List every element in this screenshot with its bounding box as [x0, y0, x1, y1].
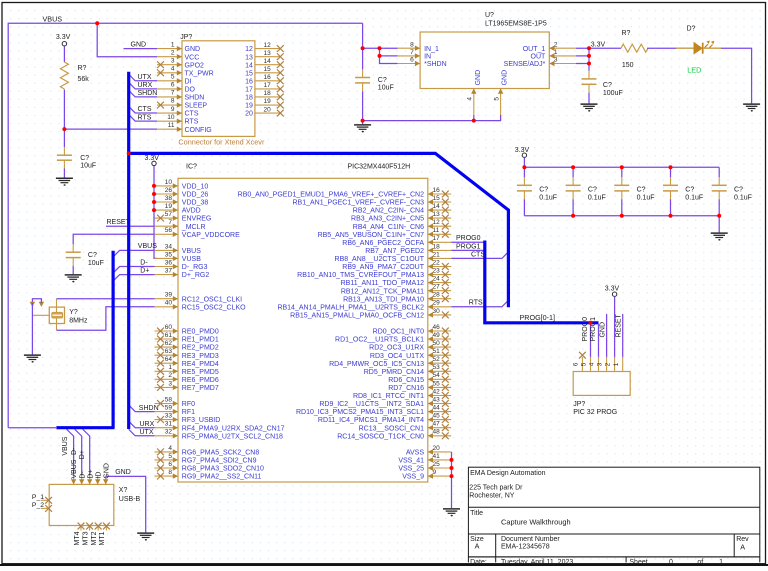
- svg-text:56k: 56k: [78, 76, 90, 83]
- svg-text:RF3_USBID: RF3_USBID: [182, 417, 221, 424]
- ground: [443, 509, 460, 517]
- pin 54 RD6_CN15: [428, 378, 451, 380]
- svg-text:PROG[0-1]: PROG[0-1]: [520, 313, 556, 322]
- svg-text:17: 17: [245, 87, 253, 94]
- svg-text:12: 12: [264, 42, 272, 49]
- bus A JP/signals vertical: [127, 72, 130, 429]
- svg-text:RD5_PMRD_CN14: RD5_PMRD_CN14: [364, 369, 424, 376]
- svg-text:11: 11: [168, 122, 175, 129]
- wire D- to IC pin36 bus entry: [113, 267, 154, 274]
- svg-text:5: 5: [168, 453, 172, 460]
- connector X? USB-B: [49, 484, 114, 525]
- pin 49 RD1_OC2__U1RTS_BCLK1: [428, 338, 451, 340]
- pin MT2: [97, 526, 99, 531]
- pin 35 VUSB: [155, 257, 179, 259]
- title block: [468, 467, 759, 562]
- pin 20 AVSS: [428, 451, 451, 453]
- svg-text:VSS_25: VSS_25: [398, 466, 424, 473]
- svg-text:RB3_AN3_C2IN+_CN5: RB3_AN3_C2IN+_CN5: [351, 216, 424, 223]
- junction at 64.4,129.1: [62, 127, 66, 131]
- svg-text:13: 13: [245, 54, 253, 61]
- junction at 379.5,48.2: [378, 46, 382, 50]
- svg-text:OUT_1: OUT_1: [523, 46, 546, 53]
- svg-text:A: A: [740, 542, 745, 551]
- pin 15 RB1_AN1_PGEC1_VREF-_CVREF-_CN3: [428, 201, 451, 203]
- svg-text:3.3V: 3.3V: [56, 34, 71, 41]
- svg-text:RB14_AN14_PMALH_PMA1__U2RTS_BC: RB14_AN14_PMALH_PMA1__U2RTS_BCLK2: [277, 304, 424, 311]
- svg-text:AVSS: AVSS: [406, 450, 424, 457]
- svg-text:RB7_AN7_PGED2: RB7_AN7_PGED2: [365, 248, 424, 255]
- svg-text:RE7_PMD7: RE7_PMD7: [182, 385, 219, 392]
- svg-text:38: 38: [165, 195, 173, 202]
- pin 2 OUT_1: [549, 47, 576, 49]
- svg-text:VSS_9: VSS_9: [402, 474, 424, 481]
- pin 43 RD9_IC2__U1CTS__INT2_SDA1: [428, 403, 451, 405]
- wire URX bus entry to JP: [129, 82, 157, 89]
- svg-text:MT3: MT3: [82, 531, 89, 545]
- svg-text:27: 27: [433, 284, 441, 291]
- svg-text:20: 20: [433, 445, 441, 452]
- pin 24 RB11_AN11_TDO_PMA12: [428, 282, 451, 284]
- pin 13 RB3_AN3_C2IN+_CN5: [428, 217, 451, 219]
- svg-text:VBUS: VBUS: [71, 459, 78, 478]
- svg-text:IN_1: IN_1: [424, 46, 439, 53]
- pin 2 VCC: [157, 56, 182, 58]
- svg-text:54: 54: [433, 372, 441, 379]
- pin 10 RTS: [157, 120, 182, 122]
- pin 40 RC15_OSC2_CLKO: [155, 306, 179, 308]
- connector JP? Xtend Xcvr: [182, 41, 255, 137]
- svg-text:2: 2: [605, 362, 612, 366]
- pin 38 VDD_38: [155, 201, 179, 203]
- pin 51 RD3_OC4_U1TX: [428, 354, 451, 356]
- svg-text:SLEEP: SLEEP: [185, 103, 208, 110]
- svg-text:P_2: P_2: [32, 502, 44, 509]
- wire crystal to RC12_OSC1_CLKI: [56, 299, 58, 307]
- pin 13: [255, 56, 281, 58]
- pin 6: [581, 357, 583, 372]
- wire crystal to ground: [31, 303, 33, 354]
- svg-text:19: 19: [165, 203, 173, 210]
- wire crystal to RC15_OSC2_CLKO: [56, 324, 58, 331]
- svg-text:16: 16: [264, 74, 272, 81]
- wire VCAP cap to ground: [72, 266, 74, 274]
- svg-text:0.1uF: 0.1uF: [588, 194, 606, 201]
- svg-text:RB6_AN6_PGEC2_OCFA: RB6_AN6_PGEC2_OCFA: [342, 240, 424, 247]
- svg-text:35: 35: [165, 251, 173, 258]
- svg-text:RD4_PMWR_OC5_IC5_CN13: RD4_PMWR_OC5_IC5_CN13: [329, 361, 424, 368]
- svg-text:RF1: RF1: [182, 409, 195, 416]
- pin 11 CONFIG: [157, 128, 182, 130]
- wire VBUS rail top: [8, 23, 362, 427]
- pin 25 VSS_25: [428, 467, 451, 469]
- wire PROG0 from RB6: [451, 241, 485, 243]
- junction at 379.5,55.9: [378, 54, 382, 58]
- pin 23 RB10_AN10_TMS_CVREFOUT_PMA13: [428, 274, 451, 276]
- svg-text:49: 49: [433, 332, 441, 339]
- svg-text:RB10_AN10_TMS_CVREFOUT_PMA13: RB10_AN10_TMS_CVREFOUT_PMA13: [297, 272, 424, 279]
- svg-text:USB-B: USB-B: [119, 496, 141, 503]
- svg-text:PIC 32 PROG: PIC 32 PROG: [573, 409, 617, 416]
- capacitor C? 10uF (VCAP): [66, 252, 81, 257]
- pin 61 RE1_PMD1: [155, 338, 179, 340]
- pin 7 SHDN: [157, 96, 182, 98]
- svg-text:51: 51: [433, 348, 441, 355]
- pin 1 GND: [157, 48, 182, 50]
- svg-text:RG7_PMA4_SDI2_CN9: RG7_PMA4_SDI2_CN9: [182, 458, 257, 465]
- pin ID: [97, 476, 99, 485]
- svg-text:RG9_PMA2__SS2_CN11: RG9_PMA2__SS2_CN11: [182, 474, 262, 481]
- svg-text:D-_RG3: D-_RG3: [182, 264, 208, 271]
- svg-text:RG8_PMA3_SDO2_CN10: RG8_PMA3_SDO2_CN10: [182, 466, 264, 473]
- svg-text:VSS_41: VSS_41: [398, 458, 424, 465]
- svg-text:VBUS: VBUS: [62, 436, 69, 455]
- svg-text:Capture Walkthrough: Capture Walkthrough: [501, 517, 571, 526]
- svg-text:36: 36: [165, 259, 173, 266]
- svg-text:RD3_OC4_U1TX: RD3_OC4_U1TX: [370, 353, 424, 360]
- wire PROG1 to JP pin4: [598, 324, 600, 357]
- capacitor C? 0.1uF #1: [523, 167, 525, 177]
- pin P_1: [41, 499, 49, 501]
- ground: [24, 355, 41, 363]
- svg-text:10: 10: [165, 179, 173, 186]
- svg-text:RB2_AN2_C2IN-_CN4: RB2_AN2_C2IN-_CN4: [353, 208, 424, 215]
- ground: [137, 533, 154, 541]
- pin 28 RB13_AN13_TDI_PMA10: [428, 298, 451, 300]
- svg-text:RE5_PMD5: RE5_PMD5: [182, 369, 219, 376]
- pin 31 RF4_PMA9_U2RX_SDA2_CN17: [155, 427, 179, 429]
- pin D-: [81, 476, 83, 485]
- svg-text:RD11_IC4_PMCS1_PMA14_INT4: RD11_IC4_PMCS1_PMA14_INT4: [318, 417, 424, 424]
- pin 39 RC12_OSC1_CLKI: [155, 298, 179, 300]
- svg-text:5: 5: [493, 97, 500, 101]
- svg-text:RE1_PMD1: RE1_PMD1: [182, 337, 219, 344]
- LED D?: [676, 41, 721, 54]
- capacitor C? 10uF (CONFIG): [57, 155, 72, 160]
- svg-text:RB0_AN0_PGED1_EMUD1_PMA6_VREF+: RB0_AN0_PGED1_EMUD1_PMA6_VREF+_CVREF+_CN…: [238, 192, 424, 199]
- svg-text:GND: GND: [185, 46, 201, 53]
- pin D+: [89, 476, 91, 485]
- svg-text:RF5_PMA8_U2TX_SCL2_CN18: RF5_PMA8_U2TX_SCL2_CN18: [182, 433, 283, 440]
- svg-text:64: 64: [165, 356, 173, 363]
- svg-text:MT2: MT2: [91, 531, 98, 545]
- svg-text:ID: ID: [95, 472, 102, 479]
- svg-text:57: 57: [165, 211, 173, 218]
- capacitor C? 100uF: [582, 79, 597, 84]
- svg-text:VCC: VCC: [185, 54, 200, 61]
- svg-text:GND: GND: [115, 469, 131, 476]
- svg-text:225 Tech park Dr: 225 Tech park Dr: [469, 484, 523, 491]
- pin 7 _MCLR: [155, 225, 179, 227]
- svg-text:100uF: 100uF: [603, 90, 623, 97]
- svg-text:RC14_SOSCO_T1CK_CN0: RC14_SOSCO_T1CK_CN0: [337, 433, 424, 440]
- wire D+ to IC pin37 bus entry: [113, 275, 154, 282]
- svg-text:15: 15: [264, 66, 272, 73]
- svg-text:5: 5: [171, 74, 175, 81]
- junction at 473.8,120.6: [472, 119, 476, 123]
- wire URX bus entry to IC: [129, 421, 155, 428]
- junction at 573.1,167.3: [571, 165, 575, 169]
- svg-text:58: 58: [165, 396, 173, 403]
- svg-text:63: 63: [165, 348, 173, 355]
- svg-text:16: 16: [245, 78, 253, 85]
- svg-text:44: 44: [433, 405, 441, 412]
- svg-text:RE3_PMD3: RE3_PMD3: [182, 353, 219, 360]
- svg-text:0.1uF: 0.1uF: [539, 194, 557, 201]
- svg-text:12: 12: [433, 219, 441, 226]
- pin 11 RB5_AN5_VBUSON_C1IN+_CN7: [428, 233, 451, 235]
- svg-text:PROG0: PROG0: [582, 317, 589, 342]
- pin 63 RE3_PMD3: [155, 354, 179, 356]
- svg-text:RE2_PMD2: RE2_PMD2: [182, 345, 219, 352]
- svg-text:MT1: MT1: [99, 531, 106, 545]
- junction at 589,63.5: [587, 62, 591, 66]
- svg-text:D-: D-: [71, 447, 78, 455]
- svg-text:1: 1: [613, 362, 620, 366]
- svg-text:C?: C?: [378, 77, 387, 84]
- pin 47 RC13__SOSCI_CN1: [428, 427, 451, 429]
- svg-text:14: 14: [433, 203, 441, 210]
- wire 100uF to ground: [588, 93, 590, 104]
- pin 18: [255, 96, 281, 98]
- pin 6 RG8_PMA3_SDO2_CN10: [155, 467, 179, 469]
- svg-text:4: 4: [467, 97, 474, 101]
- svg-text:0: 0: [669, 559, 673, 566]
- resistor R? 150: [621, 44, 648, 52]
- pin 33 RF3_USBID: [155, 419, 179, 421]
- svg-text:45: 45: [433, 413, 441, 420]
- pin 5: [590, 357, 592, 372]
- svg-text:RC15_OSC2_CLKO: RC15_OSC2_CLKO: [182, 304, 246, 311]
- svg-text:8: 8: [410, 41, 414, 48]
- svg-text:0.1uF: 0.1uF: [637, 194, 655, 201]
- svg-text:C?: C?: [734, 186, 743, 193]
- wire GND stub JP pin1: [124, 48, 158, 50]
- svg-text:9: 9: [171, 106, 175, 113]
- pin GND: [105, 476, 107, 485]
- svg-text:10uF: 10uF: [88, 260, 104, 267]
- svg-text:18: 18: [264, 90, 272, 97]
- capacitor C? 0.1uF #3: [621, 167, 623, 177]
- svg-text:C?: C?: [88, 252, 97, 259]
- ground: [743, 104, 760, 112]
- svg-text:22: 22: [433, 259, 441, 266]
- svg-text:VBUS: VBUS: [43, 14, 63, 23]
- pin 1: [622, 357, 624, 372]
- pin 34 VBUS: [155, 249, 179, 251]
- svg-text:_MCLR: _MCLR: [181, 224, 206, 231]
- svg-text:RTS: RTS: [185, 119, 199, 126]
- pin 8 IN_1: [398, 47, 421, 49]
- power symbol 3.3V: [145, 155, 160, 166]
- svg-text:RB4_AN4_C1IN-_CN6: RB4_AN4_C1IN-_CN6: [353, 224, 424, 231]
- wire C? cap to ground: [63, 169, 65, 178]
- svg-text:29: 29: [433, 300, 441, 307]
- pin 50 RD2_OC3_U1RX: [428, 346, 451, 348]
- svg-text:3: 3: [597, 362, 604, 366]
- svg-text:3.3V: 3.3V: [591, 41, 606, 48]
- wire VBUS branch to USB: [67, 429, 74, 476]
- svg-text:Title: Title: [470, 510, 483, 517]
- svg-text:RB9_AN9_PMA7_C2OUT: RB9_AN9_PMA7_C2OUT: [342, 264, 424, 271]
- svg-text:19: 19: [264, 98, 272, 105]
- svg-text:URX: URX: [138, 82, 153, 89]
- pin 18 RB7_AN7_PGED2: [428, 249, 451, 251]
- svg-text:8: 8: [168, 469, 172, 476]
- wire RTS bus entry to JP: [129, 115, 157, 122]
- pin 12 RB4_AN4_C1IN-_CN6: [428, 225, 451, 227]
- wire U? outputs 3.3V: [576, 47, 621, 49]
- svg-text:37: 37: [165, 268, 173, 275]
- svg-text:PROG0: PROG0: [456, 235, 481, 242]
- svg-text:7: 7: [168, 219, 172, 226]
- svg-text:41: 41: [433, 453, 441, 460]
- svg-text:150: 150: [622, 62, 634, 69]
- pin 27 RB12_AN12_TCK_PMA11: [428, 290, 451, 292]
- svg-text:11: 11: [433, 227, 440, 234]
- junction at 451.5,468.0: [450, 466, 454, 470]
- svg-text:RF4_PMA9_U2RX_SDA2_CN17: RF4_PMA9_U2RX_SDA2_CN17: [182, 425, 285, 432]
- junction at 362.6,120.6: [361, 119, 365, 123]
- svg-text:15: 15: [245, 70, 253, 77]
- pin 10 VDD_10: [155, 185, 179, 187]
- pin 44 RD10_IC3_PMCS2_PMA15_INT3_SCL1: [428, 411, 451, 413]
- svg-text:10uF: 10uF: [80, 163, 96, 170]
- svg-text:2: 2: [168, 372, 172, 379]
- wire RESET to _MCLR: [106, 225, 155, 227]
- bus D PROG vertical + horizontal: [485, 241, 599, 323]
- svg-text:20: 20: [245, 111, 253, 118]
- wire 3.3V column to 100uF cap: [588, 48, 590, 71]
- svg-text:28: 28: [433, 292, 441, 299]
- ground: [711, 233, 728, 241]
- svg-text:RB15_AN15_PMALL_PMA0_OCFB_CN12: RB15_AN15_PMALL_PMA0_OCFB_CN12: [290, 313, 424, 320]
- svg-text:16: 16: [433, 187, 441, 194]
- pin 20: [255, 112, 281, 114]
- svg-text:C?: C?: [637, 186, 646, 193]
- svg-text:VDD_10: VDD_10: [182, 184, 209, 191]
- pin 57 ENVREG: [155, 217, 179, 219]
- svg-text:10uF: 10uF: [378, 85, 394, 92]
- svg-text:6: 6: [168, 461, 172, 468]
- svg-text:24: 24: [433, 276, 441, 283]
- junction at 719.2,215.8: [717, 214, 721, 218]
- svg-text:5: 5: [581, 362, 588, 366]
- pin 15: [255, 72, 281, 74]
- svg-text:33: 33: [165, 413, 173, 420]
- svg-text:CTS: CTS: [185, 111, 199, 118]
- svg-text:JP?: JP?: [180, 34, 192, 41]
- svg-text:IC?: IC?: [186, 163, 197, 170]
- ground: [65, 275, 82, 283]
- svg-text:21: 21: [433, 251, 441, 258]
- wire GND to JP pin3: [606, 314, 608, 357]
- pin 9 VSS_9: [428, 475, 451, 477]
- svg-text:LED: LED: [687, 65, 701, 74]
- svg-text:RB13_AN13_TDI_PMA10: RB13_AN13_TDI_PMA10: [343, 296, 424, 303]
- svg-text:RD8_IC1_RTCC_INT1: RD8_IC1_RTCC_INT1: [353, 393, 424, 400]
- svg-text:7: 7: [171, 90, 175, 97]
- svg-text:17: 17: [264, 82, 272, 89]
- capacitor C? 0.1uF #4: [670, 167, 672, 177]
- svg-text:3: 3: [168, 380, 172, 387]
- pin 8 SLEEP: [157, 104, 182, 106]
- svg-text:D+: D+: [140, 267, 149, 274]
- junction at 670.5,215.8: [669, 214, 673, 218]
- pin 17: [255, 88, 281, 90]
- svg-text:VDD_38: VDD_38: [182, 200, 209, 207]
- svg-text:GND: GND: [502, 70, 509, 86]
- svg-text:2: 2: [171, 49, 175, 56]
- svg-text:60: 60: [165, 324, 173, 331]
- bus B VBUS/D-/D+ vertical: [111, 251, 114, 428]
- pin 26 VDD_26: [155, 193, 179, 195]
- svg-text:25: 25: [433, 461, 441, 468]
- svg-text:1: 1: [171, 41, 175, 48]
- svg-text:AVDD: AVDD: [182, 208, 201, 215]
- svg-text:PROG1: PROG1: [590, 317, 597, 342]
- svg-text:SHDN: SHDN: [139, 405, 159, 412]
- svg-text:RB12_AN12_TCK_PMA11: RB12_AN12_TCK_PMA11: [341, 288, 424, 295]
- svg-text:RD0_OC1_INT0: RD0_OC1_INT0: [373, 329, 424, 336]
- svg-text:46: 46: [433, 324, 441, 331]
- wire LED to ground: [721, 48, 752, 103]
- svg-text:15: 15: [433, 195, 441, 202]
- pin 19: [255, 104, 281, 106]
- crystal Y? 8MHz: [32, 307, 64, 323]
- ground: [354, 125, 371, 133]
- svg-text:62: 62: [165, 340, 173, 347]
- svg-text:26: 26: [165, 187, 173, 194]
- svg-text:D+: D+: [87, 469, 94, 478]
- svg-text:8: 8: [171, 98, 175, 105]
- svg-text:31: 31: [165, 421, 173, 428]
- wire UTX bus entry to JP: [129, 74, 157, 81]
- pin 29 RB14_AN14_PMALH_PMA1__U2RTS_BCLK2: [428, 306, 451, 308]
- svg-text:*SHDN: *SHDN: [424, 61, 447, 68]
- pin 3 RE7_PMD7: [155, 386, 179, 388]
- pin 14 RB2_AN2_C2IN-_CN4: [428, 209, 451, 211]
- svg-text:JP?: JP?: [573, 401, 585, 408]
- pin 3 SENSE/ADJ*: [549, 63, 576, 65]
- junction at 621.8,167.3: [620, 165, 624, 169]
- pin 4 RG6_PMA5_SCK2_CN8: [155, 451, 179, 453]
- wire SHDN bus entry to IC: [129, 405, 155, 412]
- pin 12: [255, 48, 281, 50]
- junction at 573.1,215.8: [571, 214, 575, 218]
- power symbol 3.3V: [515, 147, 530, 157]
- wire resistor to LED: [647, 47, 676, 49]
- svg-text:12: 12: [245, 46, 253, 53]
- svg-text:EMA Design Automation: EMA Design Automation: [470, 470, 546, 477]
- pin 1 RE5_PMD5: [155, 370, 179, 372]
- svg-text:10: 10: [167, 114, 175, 121]
- pin 5 DI: [157, 80, 182, 82]
- svg-text:Connector for Xtend Xcevr: Connector for Xtend Xcevr: [178, 137, 265, 146]
- svg-text:RE6_PMD6: RE6_PMD6: [182, 377, 219, 384]
- junction at 154,185.9: [152, 184, 156, 188]
- svg-text:DI: DI: [185, 78, 192, 85]
- wire SHDN bus entry to JP: [129, 90, 157, 97]
- junction at 589,48.2: [587, 46, 591, 50]
- pin 32 RF5_PMA8_U2TX_SCL2_CN18: [155, 435, 179, 437]
- svg-text:D+_RG2: D+_RG2: [182, 272, 210, 279]
- pin 41 VSS_41: [428, 459, 451, 461]
- svg-text:1: 1: [719, 559, 723, 566]
- pin MT1: [105, 526, 107, 531]
- svg-text:CTS: CTS: [138, 106, 152, 113]
- wire RESET to JP pin1: [622, 314, 624, 357]
